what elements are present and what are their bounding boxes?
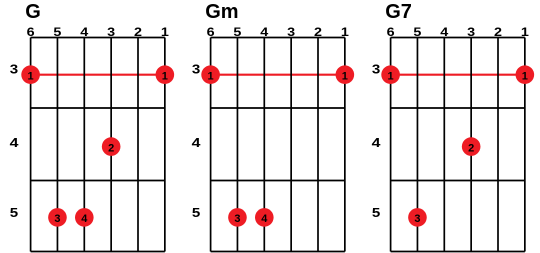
svg-text:3: 3 <box>414 213 420 225</box>
svg-text:G: G <box>25 1 41 23</box>
svg-text:1: 1 <box>208 71 214 83</box>
svg-text:3: 3 <box>192 63 200 77</box>
svg-text:3: 3 <box>372 63 380 77</box>
svg-text:Gm: Gm <box>205 1 238 23</box>
svg-text:1: 1 <box>522 71 528 83</box>
svg-text:3: 3 <box>54 213 60 225</box>
svg-text:3: 3 <box>234 213 240 225</box>
svg-text:4: 4 <box>10 136 19 150</box>
svg-text:5: 5 <box>10 206 18 220</box>
svg-text:1: 1 <box>388 71 394 83</box>
svg-text:3: 3 <box>10 63 18 77</box>
svg-text:2: 2 <box>108 142 114 154</box>
svg-text:2: 2 <box>468 142 474 154</box>
svg-text:G7: G7 <box>385 1 412 23</box>
svg-text:5: 5 <box>192 206 200 220</box>
svg-text:4: 4 <box>372 136 381 150</box>
svg-text:4: 4 <box>192 136 201 150</box>
svg-text:4: 4 <box>261 213 268 225</box>
svg-text:1: 1 <box>28 71 34 83</box>
svg-text:4: 4 <box>81 213 88 225</box>
svg-text:1: 1 <box>342 71 348 83</box>
svg-text:5: 5 <box>372 206 380 220</box>
svg-text:1: 1 <box>162 71 168 83</box>
